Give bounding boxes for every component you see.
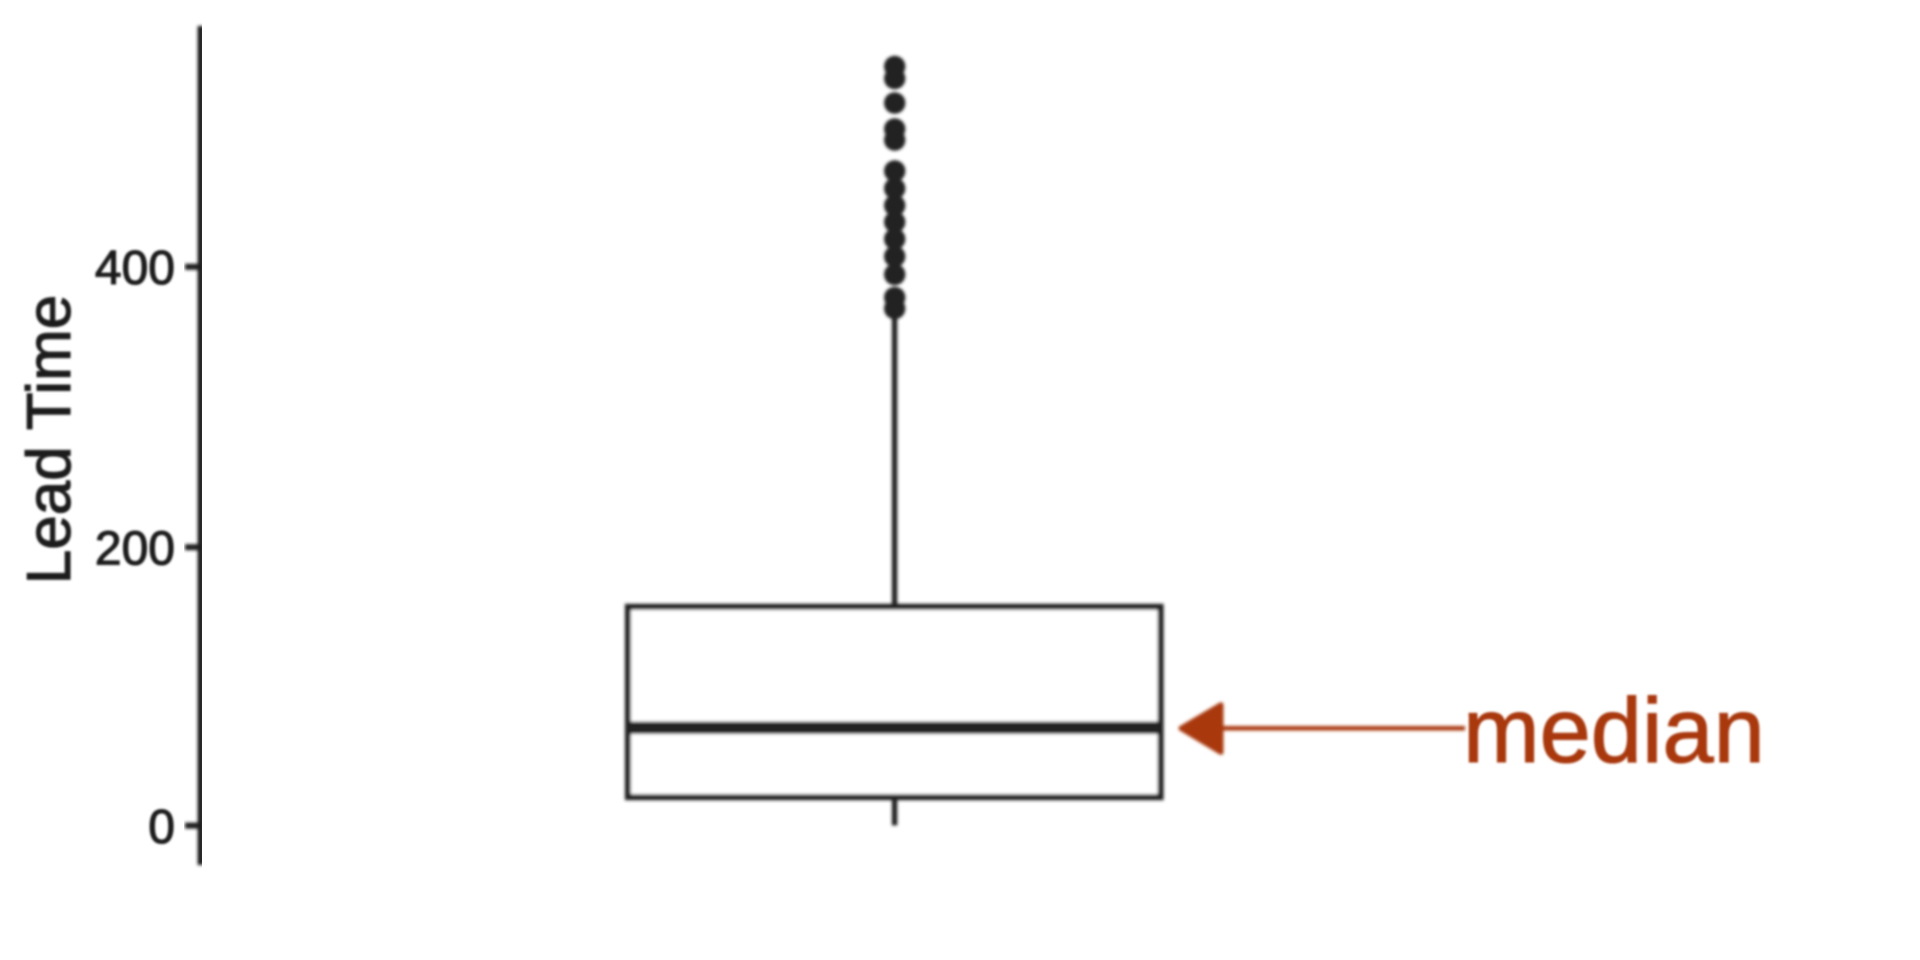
- y tick 400: [185, 264, 201, 270]
- box (IQR): [628, 607, 1161, 797]
- median line: [625, 721, 1164, 734]
- y tick 200: [185, 544, 201, 550]
- outlier dots: [884, 56, 905, 319]
- annotation text "median": [1463, 680, 1765, 782]
- svg-text:200: 200: [95, 522, 175, 575]
- y-axis line: [198, 26, 205, 865]
- annotation arrow line: [1219, 726, 1465, 731]
- top whisker: [892, 312, 898, 607]
- annotation arrow head: [1181, 705, 1221, 753]
- svg-text:median: median: [1463, 680, 1765, 782]
- svg-text:0: 0: [148, 801, 175, 854]
- svg-text:Lead Time: Lead Time: [15, 295, 84, 585]
- y tick 0: [185, 823, 201, 829]
- svg-text:400: 400: [95, 242, 175, 295]
- bottom whisker: [892, 797, 898, 825]
